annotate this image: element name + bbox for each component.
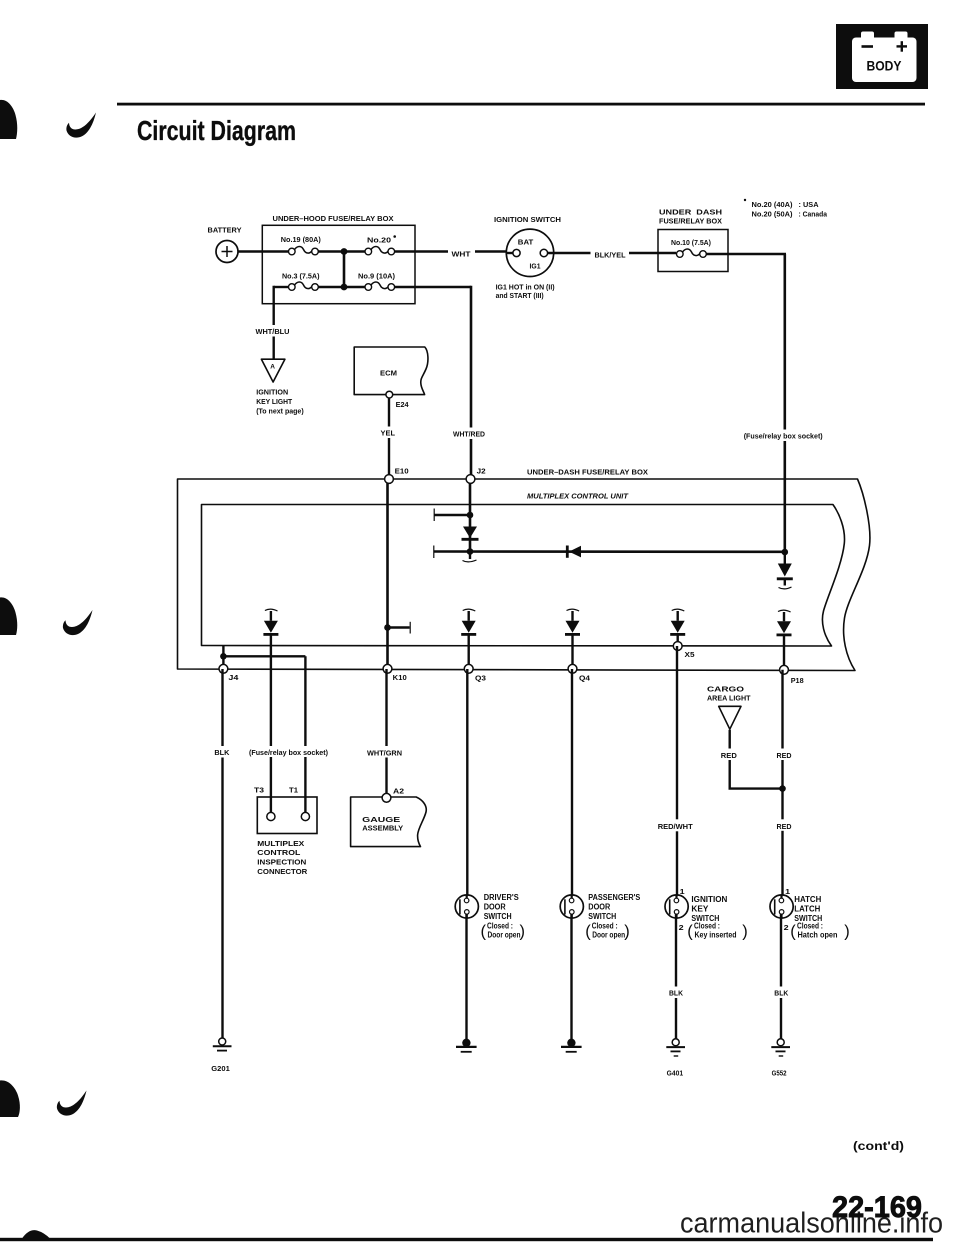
connector circle E10 xyxy=(385,475,394,484)
wire fuse20 to ignition switch xyxy=(395,250,511,252)
connector A2 xyxy=(382,793,391,802)
svg-text:A: A xyxy=(270,364,275,371)
BODY battery badge (top right) xyxy=(836,24,928,89)
svg-text:G401: G401 xyxy=(667,1068,684,1077)
svg-text:WHT/RED: WHT/RED xyxy=(453,430,486,439)
svg-text:(To next page): (To next page) xyxy=(256,407,304,416)
note No.20 USA/Canada xyxy=(744,199,828,219)
svg-text:BLK: BLK xyxy=(669,989,684,998)
WHT/RED label xyxy=(450,428,490,440)
svg-text:G201: G201 xyxy=(211,1064,230,1073)
inner box MULTIPLEX CONTROL UNIT xyxy=(202,491,845,646)
wire battery to fuse box xyxy=(238,250,289,253)
svg-text:E24: E24 xyxy=(396,400,410,409)
svg-text:RED: RED xyxy=(721,751,738,760)
svg-text:1: 1 xyxy=(680,887,685,896)
connector circle K10 xyxy=(383,664,392,673)
svg-text:AREA LIGHT: AREA LIGHT xyxy=(707,694,751,703)
ground G201 xyxy=(211,1038,231,1073)
svg-text:J4: J4 xyxy=(228,673,239,682)
svg-text:SWITCH: SWITCH xyxy=(484,912,512,921)
scan blob dome 1 xyxy=(0,100,17,139)
wire junction vertical between rows xyxy=(343,252,346,288)
scan blob crescent 1 xyxy=(66,113,96,138)
(Fuse/relay box socket) label left xyxy=(246,746,332,757)
svg-text:G552: G552 xyxy=(772,1068,787,1077)
svg-text:IGNITION SWITCH: IGNITION SWITCH xyxy=(494,215,561,224)
svg-text:(: ( xyxy=(687,923,693,941)
svg-text:Circuit Diagram: Circuit Diagram xyxy=(137,115,296,146)
scan blob crescent 3 xyxy=(57,1091,87,1116)
svg-text:RED/WHT: RED/WHT xyxy=(658,822,693,831)
svg-text:CONNECTOR: CONNECTOR xyxy=(257,867,308,876)
svg-text:No.19 (80A): No.19 (80A) xyxy=(281,235,321,244)
bottom-left bump xyxy=(22,1230,50,1238)
svg-text:No.20 (50A): No.20 (50A) xyxy=(752,210,793,219)
wire Q3 down to driver's door switch xyxy=(466,669,468,899)
node junction row2 xyxy=(341,284,348,291)
gauge assembly box xyxy=(351,797,427,847)
multiplex control inspection connector xyxy=(254,786,317,876)
outer box UNDER-DASH FUSE/RELAY BOX xyxy=(178,467,870,670)
svg-text:CARGO: CARGO xyxy=(707,684,744,693)
svg-text:: Canada: : Canada xyxy=(799,210,828,219)
svg-text:WHT: WHT xyxy=(452,249,471,258)
svg-text:): ) xyxy=(844,923,850,941)
wire E24 down to E10 xyxy=(388,395,390,479)
diode D8 branch to P18 xyxy=(777,610,792,670)
bottom rule xyxy=(0,1238,933,1241)
svg-text:IG1: IG1 xyxy=(530,262,541,271)
diode D5 branch to Q3 xyxy=(461,609,476,669)
battery xyxy=(208,226,242,263)
svg-text:Hatch open: Hatch open xyxy=(798,930,838,939)
connector circle P18 xyxy=(780,665,789,674)
svg-text:(: ( xyxy=(585,923,591,941)
svg-text:DOOR: DOOR xyxy=(588,903,610,912)
svg-text:No.9 (10A): No.9 (10A) xyxy=(358,272,395,281)
wire J4 segment and stub to T1 xyxy=(220,646,305,813)
wire fuse3 left lead xyxy=(274,286,289,288)
ground (passenger, ball type) xyxy=(561,1039,582,1052)
svg-text:BATTERY: BATTERY xyxy=(208,226,242,235)
ground G401 xyxy=(666,1039,685,1078)
node junction row1 xyxy=(341,248,348,255)
svg-text:(: ( xyxy=(481,923,487,941)
svg-text:LATCH: LATCH xyxy=(794,904,820,913)
RED/WHT label xyxy=(655,819,696,831)
svg-text:): ) xyxy=(742,923,748,941)
svg-text:carmanualsonline.info: carmanualsonline.info xyxy=(680,1208,943,1240)
svg-text:YEL: YEL xyxy=(381,428,396,437)
WHT label xyxy=(448,245,475,258)
BLK label (key switch) xyxy=(666,987,686,999)
connector circle Q3 xyxy=(464,664,473,673)
BLK label (J4) xyxy=(211,746,233,758)
wire J2 into box down to bus xyxy=(469,479,472,552)
BLK/YEL label xyxy=(591,247,630,260)
connector circle X5 xyxy=(673,642,682,651)
svg-text:FUSE/RELAY BOX: FUSE/RELAY BOX xyxy=(659,216,722,225)
svg-text:UNDER–DASH FUSE/RELAY BOX: UNDER–DASH FUSE/RELAY BOX xyxy=(527,467,648,476)
connector circle Q4 xyxy=(568,664,577,673)
diode D1 on J2 branch xyxy=(463,527,477,539)
hatch latch switch xyxy=(770,887,850,941)
wire K10 down to A2 xyxy=(385,669,387,799)
svg-text:UNDER DASH: UNDER DASH xyxy=(659,207,722,216)
svg-text:KEY LIGHT: KEY LIGHT xyxy=(256,397,292,406)
ignition key switch xyxy=(665,887,748,941)
RED label (P18 lower) xyxy=(774,819,794,831)
svg-text:and START (III): and START (III) xyxy=(496,291,544,300)
svg-text:CONTROL: CONTROL xyxy=(257,848,300,857)
scan blob dome 2 xyxy=(0,597,17,635)
fuse No.20 xyxy=(365,235,396,255)
svg-text:Door open: Door open xyxy=(488,930,521,939)
svg-text:(Fuse/relay box socket): (Fuse/relay box socket) xyxy=(744,431,823,440)
under-hood fuse/relay box xyxy=(262,214,415,304)
diode D7 branch to X5 xyxy=(670,609,685,646)
header rule xyxy=(117,103,925,106)
diode D3 on P18 branch xyxy=(777,552,793,589)
svg-text:Door open: Door open xyxy=(592,930,625,939)
wire fuse19 to junction and fuse20 xyxy=(318,250,365,252)
svg-text:WHT/BLU: WHT/BLU xyxy=(256,327,290,336)
node bus/P18 junction xyxy=(782,549,789,556)
wire stub right of K10 with tick xyxy=(388,626,410,628)
svg-text:No.20: No.20 xyxy=(367,235,391,244)
svg-text:X5: X5 xyxy=(685,650,695,659)
wire fuse3 to junction to fuse9 xyxy=(318,286,365,288)
svg-text:2: 2 xyxy=(679,923,684,932)
svg-text:T1: T1 xyxy=(289,786,298,795)
fuse No.9 (10A) xyxy=(358,272,395,291)
svg-text:RED: RED xyxy=(777,822,793,831)
svg-text:IGNITION: IGNITION xyxy=(256,388,288,397)
wire short below bus with tick xyxy=(469,552,471,560)
wire P18 down to hatch latch switch xyxy=(781,670,783,899)
svg-text:No.20 (40A): No.20 (40A) xyxy=(752,200,793,209)
YEL label xyxy=(378,427,398,439)
node K10 stub junction xyxy=(384,624,391,631)
svg-text:UNDER–HOOD FUSE/RELAY BOX: UNDER–HOOD FUSE/RELAY BOX xyxy=(273,214,394,223)
diode D6 branch to Q4 xyxy=(565,609,580,669)
svg-text:Key inserted: Key inserted xyxy=(695,930,737,939)
passenger's door switch xyxy=(560,893,640,940)
bus line xyxy=(434,550,785,553)
ignition key light arrow A xyxy=(261,359,285,382)
connector E24 xyxy=(386,391,393,398)
cargo area light caption xyxy=(707,684,751,702)
(Fuse/relay box socket) label right xyxy=(741,430,827,442)
under-dash fuse/relay box (top) xyxy=(658,207,728,271)
cargo area light arrow xyxy=(719,706,741,729)
WHT/GRN label xyxy=(364,746,405,758)
ground (driver, ball type) xyxy=(456,1039,477,1052)
svg-text:GAUGE: GAUGE xyxy=(362,815,400,824)
svg-text:Q3: Q3 xyxy=(475,674,486,683)
svg-text:SWITCH: SWITCH xyxy=(588,912,616,921)
svg-text:BLK/YEL: BLK/YEL xyxy=(595,251,626,260)
node bus/J2 junction xyxy=(467,548,474,555)
WHT/BLU label xyxy=(252,325,293,337)
svg-text:J2: J2 xyxy=(477,467,486,476)
diode D4 branch to T3 xyxy=(263,609,278,813)
svg-text:IGNITION: IGNITION xyxy=(691,895,727,904)
connector circle J4 xyxy=(219,664,228,673)
BLK label (hatch switch) xyxy=(771,987,791,999)
fuse No.3 (7.5A) xyxy=(282,272,320,291)
svg-text:No.3 (7.5A): No.3 (7.5A) xyxy=(282,272,320,281)
ignition switch xyxy=(494,215,561,300)
wire passenger switch to ground xyxy=(570,914,572,1043)
svg-text:BLK: BLK xyxy=(774,989,789,998)
svg-text:(cont'd): (cont'd) xyxy=(853,1141,904,1153)
wire ignition switch to under-dash fuse box xyxy=(548,252,676,254)
svg-text:): ) xyxy=(624,923,630,941)
svg-text:DOOR: DOOR xyxy=(484,903,506,912)
wire WHT/BLU vertical drop xyxy=(273,286,275,359)
svg-text:E10: E10 xyxy=(395,467,409,476)
scan blob dome 3 xyxy=(0,1080,20,1117)
fuse No.19 (80A) xyxy=(281,235,321,255)
wire fuse9 to right corner xyxy=(395,286,471,288)
svg-text:1: 1 xyxy=(785,887,790,896)
svg-text:KEY: KEY xyxy=(691,904,709,913)
wire ignition key switch to G401 xyxy=(675,914,677,1038)
node J2-stub junction xyxy=(467,512,474,519)
wire hatch latch switch to G552 xyxy=(780,914,782,1038)
RED label (cargo) xyxy=(719,749,740,761)
driver's door switch xyxy=(455,893,525,940)
ECM box xyxy=(354,347,428,395)
svg-text:BAT: BAT xyxy=(518,238,534,247)
svg-text:(: ( xyxy=(790,923,796,941)
svg-text:T3: T3 xyxy=(254,786,264,795)
svg-text:MULTIPLEX: MULTIPLEX xyxy=(257,839,304,848)
svg-text:WHT/GRN: WHT/GRN xyxy=(367,748,402,757)
svg-text:INSPECTION: INSPECTION xyxy=(257,858,306,867)
svg-text:): ) xyxy=(520,923,526,941)
ignition key light caption xyxy=(256,388,304,416)
svg-text:RED: RED xyxy=(777,751,793,760)
svg-text:Q4: Q4 xyxy=(579,674,591,683)
wire Q4 down to passenger's door switch xyxy=(571,669,573,899)
svg-text:ECM: ECM xyxy=(380,369,397,378)
svg-text:A2: A2 xyxy=(393,787,404,796)
wire J4 down to G201 xyxy=(221,669,223,1038)
svg-text:DRIVER'S: DRIVER'S xyxy=(484,893,519,902)
svg-text:P18: P18 xyxy=(791,676,804,685)
svg-text:: USA: : USA xyxy=(799,200,820,209)
wire cargo light down and right to junction xyxy=(730,730,783,789)
wire fuse9 corner down to J2 xyxy=(470,286,473,479)
wire driver switch to ground xyxy=(465,914,467,1043)
ground G552 xyxy=(771,1039,790,1078)
svg-text:No.10 (7.5A): No.10 (7.5A) xyxy=(671,238,711,247)
RED label (P18 upper) xyxy=(774,749,794,761)
svg-text:(Fuse/relay box socket): (Fuse/relay box socket) xyxy=(249,748,328,757)
wire under-dash fuse to right corner down xyxy=(706,253,786,255)
node cargo/hatch junction xyxy=(779,785,786,792)
svg-text:PASSENGER'S: PASSENGER'S xyxy=(588,893,640,902)
wire E10 into box down to K10 xyxy=(386,479,389,669)
svg-text:2: 2 xyxy=(784,923,789,932)
wire stub left of J2 with tick xyxy=(435,514,471,516)
svg-text:BODY: BODY xyxy=(867,58,903,74)
svg-text:BLK: BLK xyxy=(214,748,230,757)
diode D2 on bus (pointing left) xyxy=(566,546,569,558)
wire X5 down to ignition key switch xyxy=(676,646,678,899)
svg-text:MULTIPLEX CONTROL UNIT: MULTIPLEX CONTROL UNIT xyxy=(527,491,629,500)
svg-text:ASSEMBLY: ASSEMBLY xyxy=(362,824,403,833)
scan blob crescent 2 xyxy=(63,610,93,635)
svg-text:HATCH: HATCH xyxy=(794,895,821,904)
connector circle J2 xyxy=(466,475,475,484)
fuse No.10 (7.5A) xyxy=(671,238,711,257)
svg-text:K10: K10 xyxy=(393,673,407,682)
tick bus left end xyxy=(433,546,435,559)
